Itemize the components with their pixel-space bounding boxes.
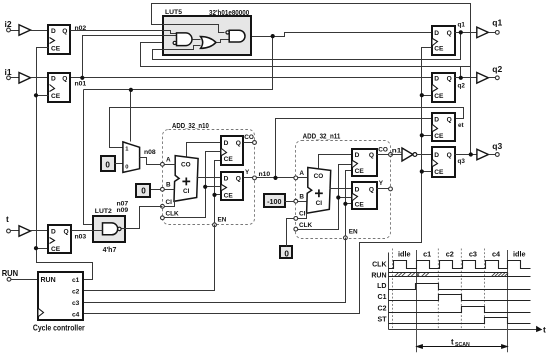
svg-text:D: D xyxy=(224,140,229,147)
svg-text:RUN: RUN xyxy=(41,277,56,284)
svg-text:D: D xyxy=(434,30,439,37)
svg-text:D: D xyxy=(355,187,360,194)
svg-text:Q: Q xyxy=(62,28,67,35)
svg-text:EN: EN xyxy=(218,217,227,224)
svg-text:n03: n03 xyxy=(75,234,87,241)
svg-text:CE: CE xyxy=(355,168,365,175)
svg-text:0: 0 xyxy=(105,160,110,169)
svg-text:ST: ST xyxy=(378,316,388,323)
svg-text:CO: CO xyxy=(314,173,324,180)
svg-text:Q: Q xyxy=(369,152,374,159)
svg-text:q2: q2 xyxy=(492,64,502,74)
svg-text:n10: n10 xyxy=(259,171,271,178)
svg-text:q1: q1 xyxy=(458,22,466,29)
svg-text:B: B xyxy=(299,193,304,200)
svg-text:CO: CO xyxy=(181,161,191,168)
svg-text:CLK: CLK xyxy=(372,262,386,269)
svg-text:D: D xyxy=(51,75,56,82)
svg-text:c4: c4 xyxy=(492,250,501,259)
svg-text:0: 0 xyxy=(125,164,128,170)
svg-text:q3: q3 xyxy=(458,158,466,165)
svg-text:CO: CO xyxy=(244,134,254,141)
svg-text:n01: n01 xyxy=(75,81,87,88)
svg-text:4'h7: 4'h7 xyxy=(103,247,117,254)
svg-text:RUN: RUN xyxy=(2,268,19,278)
svg-text:q2: q2 xyxy=(458,83,466,90)
svg-text:Q: Q xyxy=(369,187,374,194)
svg-text:c2: c2 xyxy=(446,250,454,259)
svg-text:et: et xyxy=(458,122,465,129)
svg-text:CLK: CLK xyxy=(166,211,180,218)
svg-text:Q: Q xyxy=(236,140,241,147)
svg-text:D: D xyxy=(434,152,439,159)
svg-text:CE: CE xyxy=(434,133,444,140)
svg-text:c2: c2 xyxy=(72,288,80,295)
svg-text:CE: CE xyxy=(51,93,61,100)
svg-text:-100: -100 xyxy=(267,197,281,206)
svg-text:32'h01e80000: 32'h01e80000 xyxy=(209,10,249,17)
svg-text:t: t xyxy=(451,338,454,347)
svg-text:Y: Y xyxy=(245,169,250,176)
svg-text:D: D xyxy=(434,75,439,82)
svg-text:n09: n09 xyxy=(117,207,129,214)
svg-text:SCAN: SCAN xyxy=(455,342,470,348)
svg-text:CI: CI xyxy=(316,200,323,207)
svg-text:D: D xyxy=(51,28,56,35)
svg-text:t: t xyxy=(543,325,546,335)
svg-text:C2: C2 xyxy=(378,305,387,312)
svg-text:LUT5: LUT5 xyxy=(165,9,182,16)
svg-text:C1: C1 xyxy=(378,294,387,301)
svg-text:D: D xyxy=(51,229,56,236)
svg-text:c3: c3 xyxy=(72,300,80,307)
svg-text:CE: CE xyxy=(434,93,444,100)
svg-text:CE: CE xyxy=(224,193,234,200)
svg-text:CO: CO xyxy=(378,147,388,154)
svg-text:LUT2: LUT2 xyxy=(95,208,112,215)
svg-text:0: 0 xyxy=(141,186,146,195)
svg-text:idle: idle xyxy=(513,250,526,259)
svg-text:CE: CE xyxy=(434,46,444,53)
svg-text:CE: CE xyxy=(224,156,234,163)
svg-text:D: D xyxy=(434,117,439,124)
svg-text:CI: CI xyxy=(183,188,190,195)
svg-text:A: A xyxy=(299,170,304,177)
svg-text:Cycle controller: Cycle controller xyxy=(33,323,85,332)
svg-text:c4: c4 xyxy=(72,312,80,319)
svg-text:CE: CE xyxy=(51,246,61,253)
svg-text:Q: Q xyxy=(62,75,67,82)
svg-text:c3: c3 xyxy=(469,250,477,259)
svg-text:EN: EN xyxy=(349,229,358,236)
svg-text:RUN: RUN xyxy=(371,272,386,279)
svg-text:q3: q3 xyxy=(492,141,502,151)
svg-text:n08: n08 xyxy=(144,149,156,156)
svg-text:c1: c1 xyxy=(72,277,80,284)
svg-text:D: D xyxy=(224,176,229,183)
svg-text:A: A xyxy=(166,156,171,163)
svg-text:CI: CI xyxy=(299,211,306,218)
svg-text:c1: c1 xyxy=(423,250,431,259)
svg-text:t: t xyxy=(6,214,9,224)
svg-text:Q: Q xyxy=(236,176,241,183)
svg-text:Q: Q xyxy=(447,152,452,159)
svg-text:Y: Y xyxy=(379,180,384,187)
svg-text:Q: Q xyxy=(447,117,452,124)
svg-text:CI: CI xyxy=(166,199,173,206)
svg-text:B: B xyxy=(166,182,171,189)
svg-text:D: D xyxy=(355,152,360,159)
svg-text:Q: Q xyxy=(447,75,452,82)
svg-text:n02: n02 xyxy=(75,25,87,32)
svg-text:CLK: CLK xyxy=(299,222,313,229)
svg-text:ADD_32_n11: ADD_32_n11 xyxy=(303,133,341,140)
svg-text:q1: q1 xyxy=(492,17,502,27)
svg-text:0: 0 xyxy=(284,249,289,258)
svg-text:idle: idle xyxy=(398,250,411,259)
svg-text:CE: CE xyxy=(355,202,365,209)
svg-text:LD: LD xyxy=(377,283,386,290)
svg-text:ADD_32_n10: ADD_32_n10 xyxy=(172,123,209,130)
svg-text:Q: Q xyxy=(447,30,452,37)
svg-text:CE: CE xyxy=(51,46,61,53)
svg-text:CE: CE xyxy=(434,169,444,176)
svg-text:Q: Q xyxy=(64,229,69,236)
